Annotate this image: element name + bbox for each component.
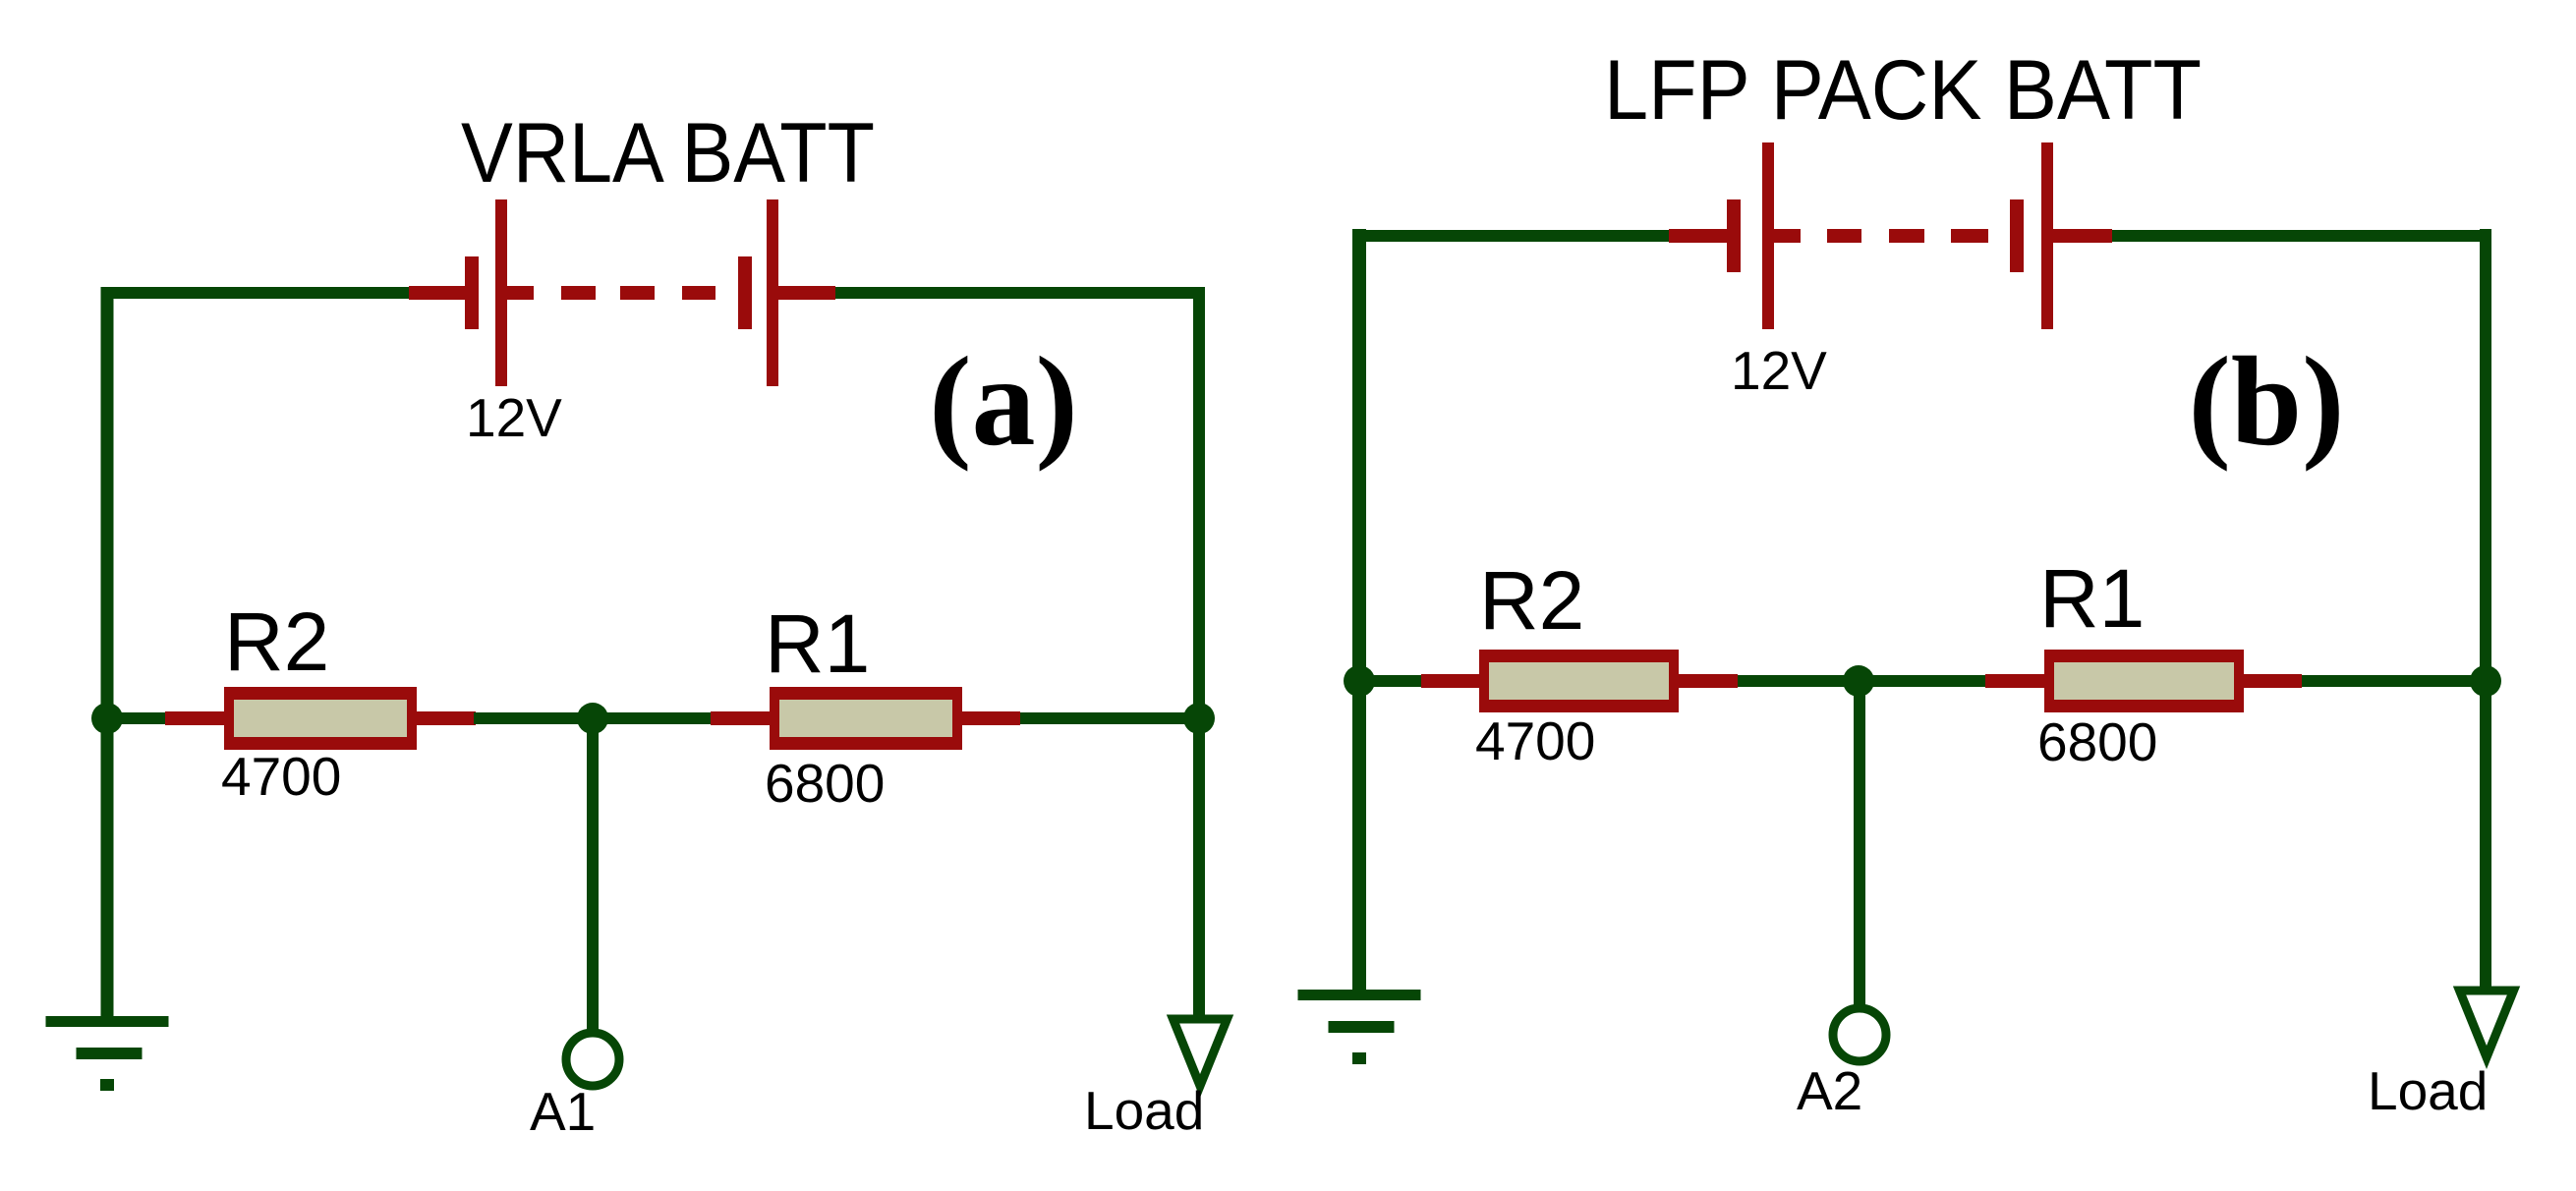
svg-text:6800: 6800 (2037, 711, 2157, 772)
svg-text:12V: 12V (466, 387, 562, 448)
svg-text:LFP PACK BATT: LFP PACK BATT (1604, 43, 2202, 138)
svg-text:(a): (a) (929, 331, 1078, 473)
svg-text:4700: 4700 (1475, 710, 1595, 771)
svg-text:4700: 4700 (221, 746, 341, 807)
svg-text:Load: Load (1084, 1080, 1204, 1141)
svg-text:A2: A2 (1797, 1060, 1862, 1121)
svg-text:VRLA BATT: VRLA BATT (461, 106, 875, 200)
svg-text:R2: R2 (1479, 554, 1584, 647)
svg-text:R1: R1 (2039, 552, 2145, 645)
svg-text:6800: 6800 (765, 753, 885, 814)
svg-text:(b): (b) (2189, 331, 2345, 473)
svg-text:12V: 12V (1731, 340, 1827, 401)
svg-text:R1: R1 (765, 597, 870, 690)
svg-text:R2: R2 (224, 595, 329, 688)
svg-text:A1: A1 (530, 1081, 596, 1142)
svg-text:Load: Load (2368, 1060, 2488, 1121)
